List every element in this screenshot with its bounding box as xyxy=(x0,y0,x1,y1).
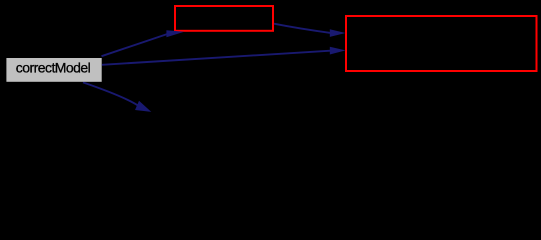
wire: edge correctModel to hidden node below xyxy=(83,82,141,107)
node: top red (truncated) box xyxy=(175,6,273,31)
arrowhead into right red node (lower) xyxy=(330,47,346,55)
arrowhead into hidden node xyxy=(135,101,151,112)
wire: edge top red node to right red node xyxy=(274,24,331,33)
arrowhead into top red node xyxy=(166,30,184,37)
node: right red (truncated) box xyxy=(346,16,537,71)
wire: edge correctModel to top red node xyxy=(102,34,168,56)
arrowhead into right red node (upper) xyxy=(330,29,346,37)
wire: edge correctModel to right red node xyxy=(102,51,331,65)
svg-text:correctModel: correctModel xyxy=(16,60,91,76)
node correctModel (current node, grey) xyxy=(6,58,101,82)
